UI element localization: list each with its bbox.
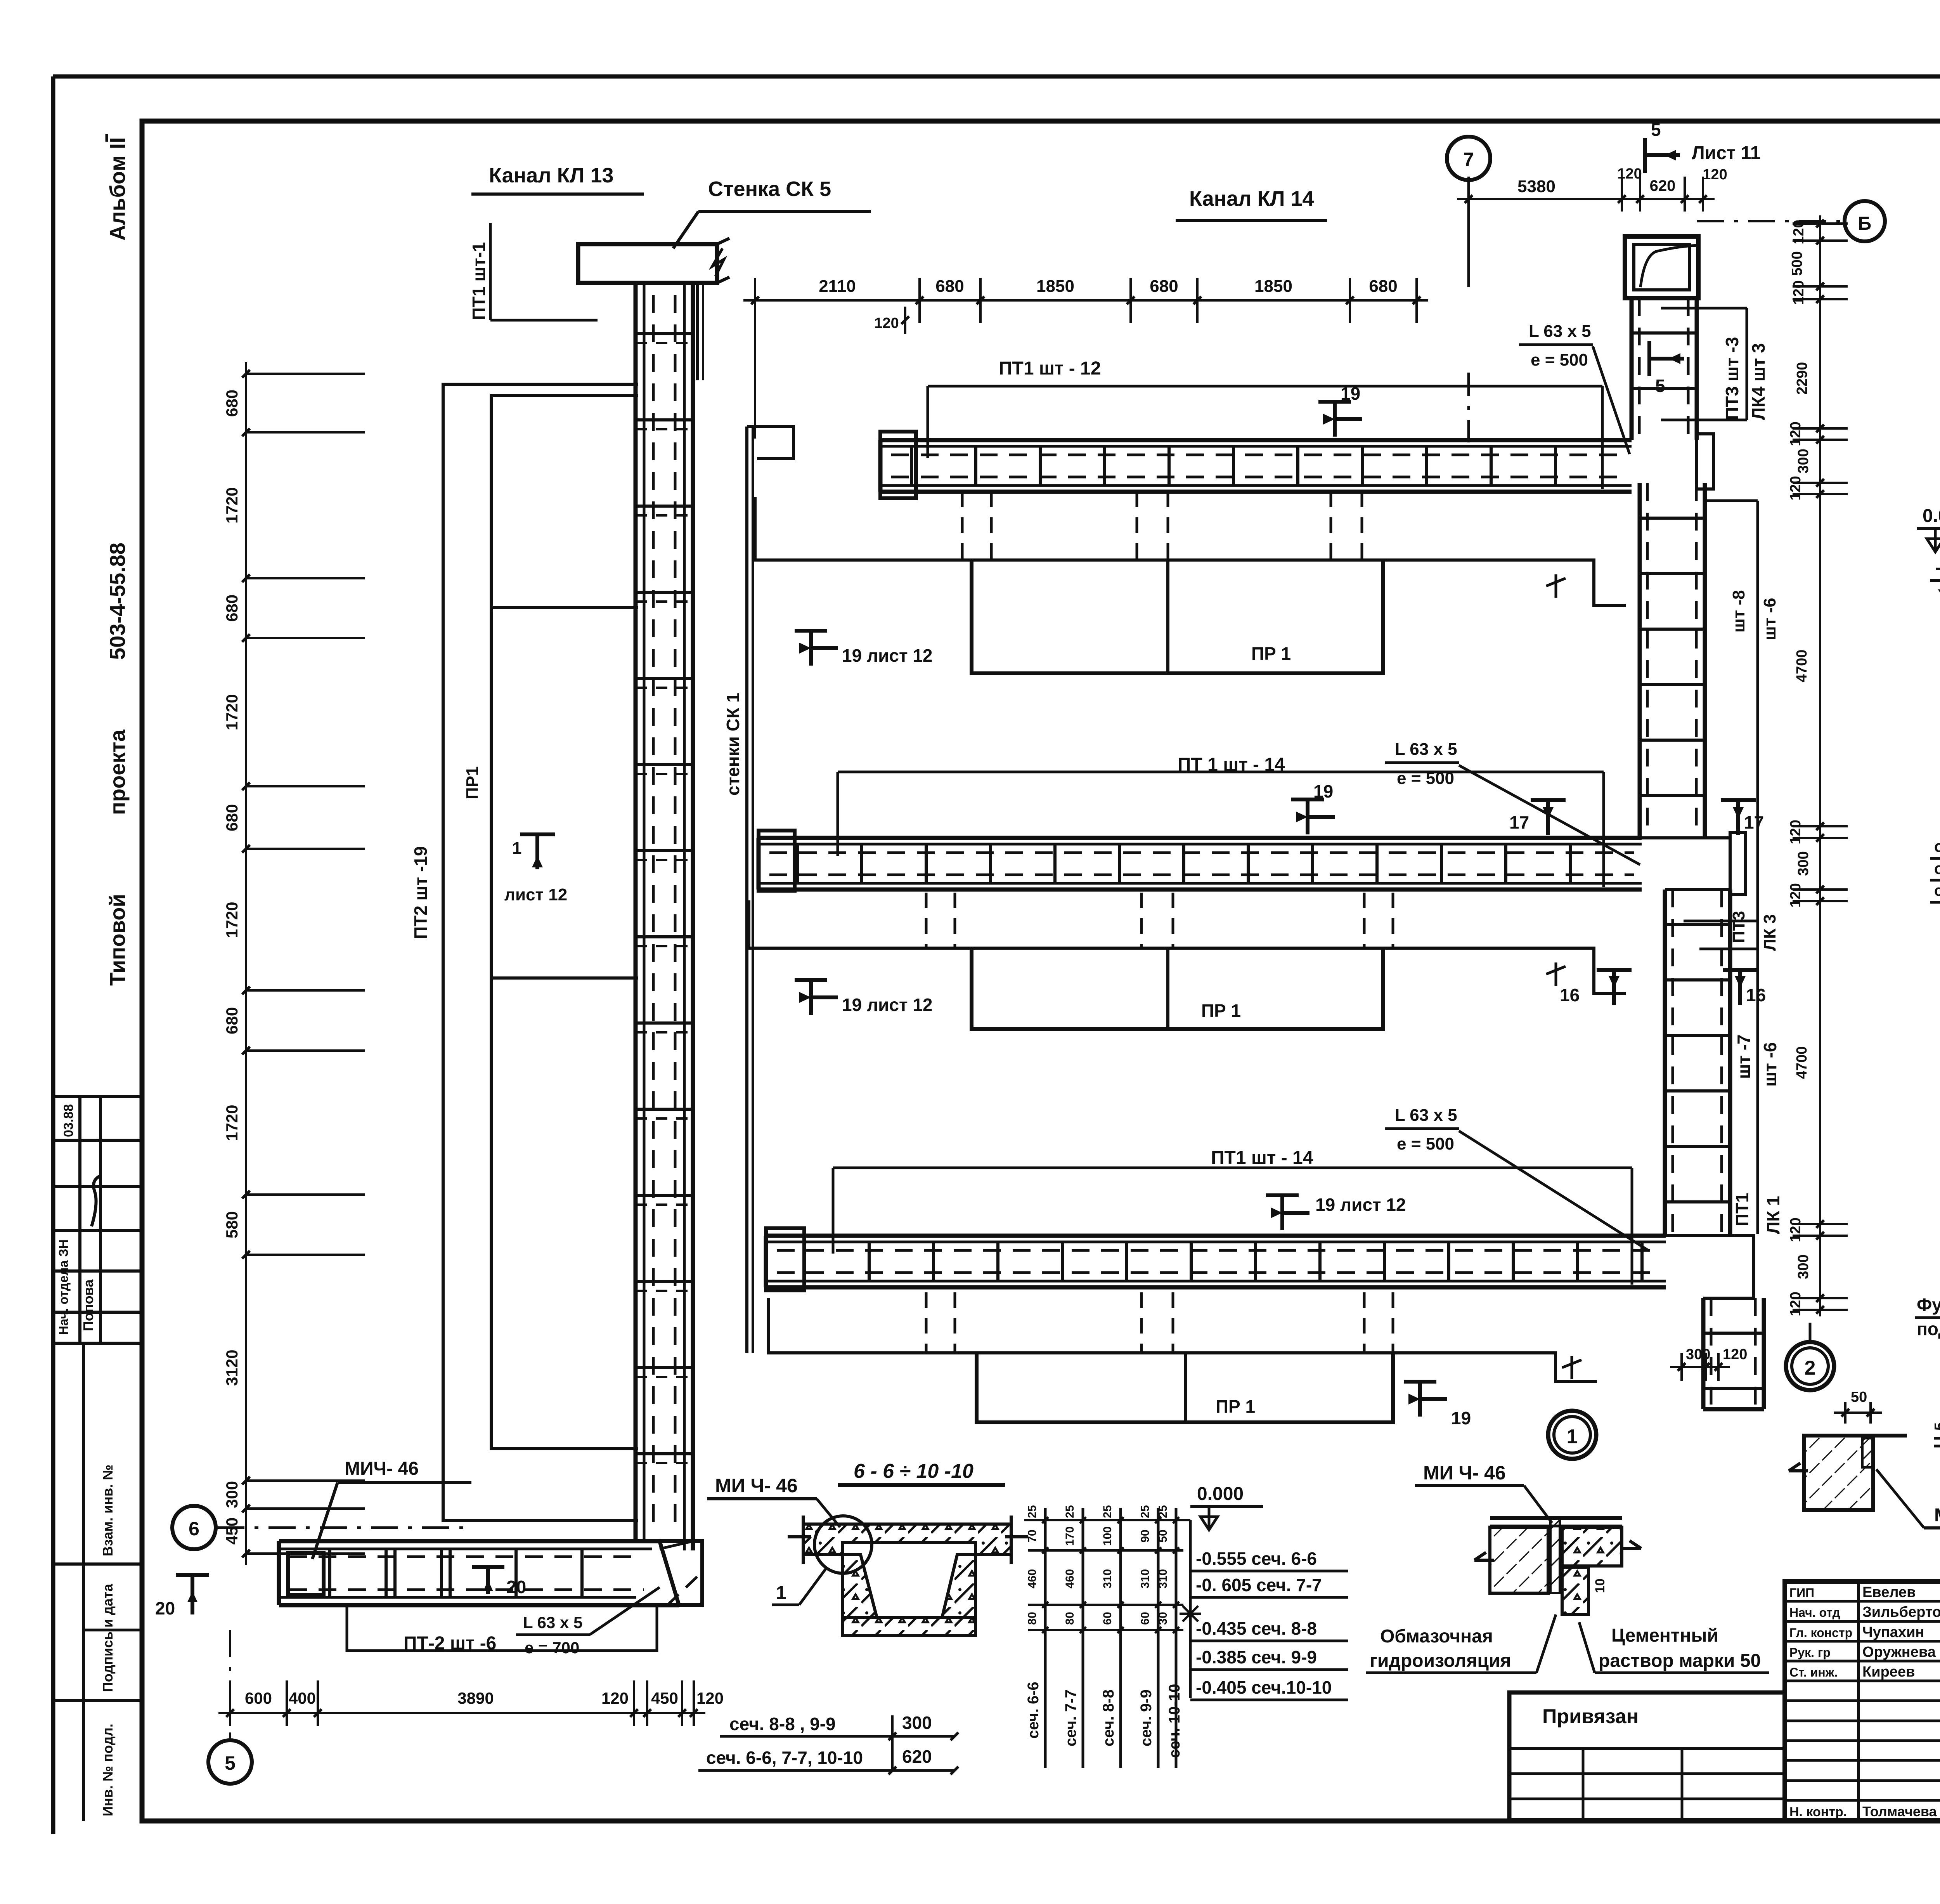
svg-text:50: 50 <box>1851 1389 1867 1405</box>
privyazan extension <box>1509 1692 1785 1820</box>
svg-text:1850: 1850 <box>1036 277 1074 296</box>
svg-text:25: 25 <box>1139 1505 1152 1518</box>
svg-text:120: 120 <box>1723 1346 1747 1363</box>
svg-text:Зильбертов: Зильбертов <box>1862 1604 1940 1620</box>
svg-text:60: 60 <box>1139 1612 1152 1625</box>
svg-text:19 лист 12: 19 лист 12 <box>842 995 933 1015</box>
svg-text:под колонну: под колонну <box>1917 1319 1940 1339</box>
svg-text:90: 90 <box>1139 1529 1152 1542</box>
svg-text:ПТ1 шт - 14: ПТ1 шт - 14 <box>1211 1148 1313 1168</box>
svg-text:-0.405 сеч.10-10: -0.405 сеч.10-10 <box>1196 1677 1332 1698</box>
svg-text:ПР1: ПР1 <box>463 766 482 799</box>
svg-text:Оружнева: Оружнева <box>1862 1644 1936 1660</box>
6-6 detail circle + 1 <box>814 1516 872 1573</box>
svg-text:Взам. инв. №: Взам. инв. № <box>100 1465 116 1556</box>
svg-text:460: 460 <box>1064 1569 1076 1588</box>
svg-text:сеч. 6-6: сеч. 6-6 <box>1025 1682 1042 1739</box>
svg-text:ПТ1: ПТ1 <box>1732 1193 1752 1226</box>
svg-text:500: 500 <box>1789 251 1805 276</box>
svg-text:6 - 6 ÷ 10 -10: 6 - 6 ÷ 10 -10 <box>854 1460 973 1483</box>
svg-text:Цементный: Цементный <box>1611 1625 1718 1646</box>
svg-text:5: 5 <box>1932 1422 1940 1431</box>
horizontal channel band PT1 sht-14 (ch2) <box>759 836 1642 840</box>
svg-text:сеч. 9-9: сеч. 9-9 <box>1138 1689 1155 1746</box>
svg-text:120: 120 <box>1788 1292 1804 1316</box>
top plate SK5 (KL13) <box>578 244 717 283</box>
svg-text:L 63 x 5: L 63 x 5 <box>523 1613 582 1632</box>
svg-text:Канал КЛ 14: Канал КЛ 14 <box>1189 187 1314 210</box>
svg-text:Толмачева: Толмачева <box>1862 1803 1937 1819</box>
label PT-2 sht-6 bracket <box>347 1605 657 1651</box>
top square box <box>1625 236 1698 298</box>
svg-text:сеч. 14-14 перем.: сеч. 14-14 перем. <box>1934 837 1940 855</box>
svg-text:30: 30 <box>1157 1612 1169 1625</box>
sidebar: podpis i data cell <box>53 1699 142 1702</box>
trench outline rect KL13 outer <box>443 384 638 1521</box>
svg-text:4700: 4700 <box>1794 1046 1810 1079</box>
svg-text:L 63 x 5: L 63 x 5 <box>1395 740 1457 759</box>
svg-text:19: 19 <box>1341 383 1360 404</box>
svg-text:стенки СК 1: стенки СК 1 <box>723 693 743 796</box>
svg-text:10: 10 <box>1593 1578 1607 1593</box>
mid strip <box>1550 1518 1560 1593</box>
svg-text:1: 1 <box>512 839 521 858</box>
junction connector ch1 <box>1697 434 1713 489</box>
svg-text:Привязан: Привязан <box>1542 1705 1639 1728</box>
top dim chain 5380/120/620/120 <box>1457 198 1715 200</box>
trench outline rect KL13 inner (PR1) <box>491 395 638 1449</box>
svg-text:ПР 1: ПР 1 <box>1251 643 1291 664</box>
signature table grid <box>1785 1600 1940 1603</box>
KL13 bottom dim chain <box>218 1712 705 1714</box>
axis circle 2 <box>1786 1342 1834 1390</box>
ch3 19 list 12 <box>1280 1195 1284 1230</box>
svg-text:-0. 605 сеч. 7-7: -0. 605 сеч. 7-7 <box>1196 1575 1322 1595</box>
svg-text:0.000: 0.000 <box>1197 1484 1244 1504</box>
ch3 left end cap <box>766 1228 804 1290</box>
svg-text:МИ Ч- 46: МИ Ч- 46 <box>715 1475 798 1496</box>
ch2 left end cap <box>759 831 795 891</box>
outer border <box>53 75 1940 79</box>
section mark 5 on ladder <box>1647 341 1651 376</box>
svg-text:Лист 11: Лист 11 <box>1692 143 1760 163</box>
svg-text:МН 556: МН 556 <box>1934 1505 1940 1526</box>
ch1 break mark <box>1546 574 1566 598</box>
svg-text:19: 19 <box>1451 1408 1471 1428</box>
vertical channel segment C <box>1663 890 1667 1236</box>
svg-text:1: 1 <box>776 1583 786 1603</box>
right block <box>1562 1527 1622 1566</box>
svg-text:300: 300 <box>902 1713 932 1733</box>
svg-text:Евелев: Евелев <box>1862 1584 1916 1601</box>
svg-text:Альбом II: Альбом II <box>105 137 130 241</box>
vertical channel segment D <box>1701 1298 1706 1409</box>
svg-text:5: 5 <box>1651 120 1661 140</box>
svg-text:03.88: 03.88 <box>61 1104 76 1137</box>
svg-text:сеч. 8-8 , 9-9: сеч. 8-8 , 9-9 <box>729 1714 836 1734</box>
svg-text:3120: 3120 <box>223 1350 241 1386</box>
svg-text:e = 500: e = 500 <box>1531 350 1588 369</box>
svg-text:ЛК 1: ЛК 1 <box>1763 1196 1783 1234</box>
svg-text:300: 300 <box>1686 1346 1710 1363</box>
svg-text:сеч. 8-8: сеч. 8-8 <box>1100 1689 1117 1746</box>
svg-text:680: 680 <box>223 1007 241 1034</box>
6-6 channel walls trapezoid <box>842 1555 877 1618</box>
svg-text:гидроизоляция: гидроизоляция <box>1370 1651 1511 1671</box>
SK5 wall stub below plate <box>696 283 699 380</box>
svg-text:19: 19 <box>1313 781 1333 801</box>
svg-text:4700: 4700 <box>1794 650 1810 683</box>
title block outline <box>1785 1581 1940 1820</box>
6-6 slab band hatched <box>803 1524 1011 1555</box>
svg-text:Нач. отд: Нач. отд <box>1789 1606 1840 1620</box>
svg-text:2: 2 <box>1805 1357 1816 1379</box>
left hatched block <box>1490 1527 1548 1593</box>
ch3 PR1 rect <box>977 1353 1393 1422</box>
svg-text:120: 120 <box>601 1689 629 1707</box>
svg-text:МИ Ч- 46: МИ Ч- 46 <box>1423 1462 1506 1484</box>
ch3 break mark <box>1562 1356 1581 1379</box>
svg-text:310: 310 <box>1101 1569 1114 1588</box>
dim 300/120 near ch3 end <box>1670 1366 1730 1368</box>
svg-text:310: 310 <box>1139 1569 1152 1588</box>
svg-text:сеч. 7-7: сеч. 7-7 <box>1062 1689 1079 1746</box>
svg-text:80: 80 <box>1026 1612 1039 1625</box>
svg-text:25: 25 <box>1064 1505 1076 1518</box>
svg-text:20: 20 <box>155 1598 175 1618</box>
svg-text:1720: 1720 <box>223 1105 241 1141</box>
svg-text:Канал КЛ 13: Канал КЛ 13 <box>489 164 614 187</box>
svg-text:120: 120 <box>1791 220 1807 244</box>
svg-text:5: 5 <box>1655 376 1665 396</box>
svg-text:Типовой: Типовой <box>105 894 130 986</box>
ch1 left end cap <box>880 432 916 498</box>
vertical channel segment A <box>1630 298 1634 440</box>
svg-text:680: 680 <box>1150 277 1178 296</box>
ch2 section marks 17 <box>1531 798 1566 802</box>
ch3 19 mark lower <box>1418 1382 1422 1417</box>
svg-text:680: 680 <box>223 390 241 417</box>
svg-text:2110: 2110 <box>819 277 856 296</box>
elevation list <box>1189 1520 1192 1698</box>
svg-text:-0.435 сеч. 8-8: -0.435 сеч. 8-8 <box>1196 1618 1317 1639</box>
svg-text:170: 170 <box>1064 1526 1076 1546</box>
svg-text:проекта: проекта <box>105 729 130 815</box>
KL13 channel rungs <box>636 332 693 335</box>
svg-text:Б: Б <box>1858 213 1872 234</box>
ch1 trench outline <box>755 497 1626 605</box>
svg-text:ПТ1 шт - 12: ПТ1 шт - 12 <box>999 358 1101 379</box>
svg-text:Рук. гр: Рук. гр <box>1789 1646 1831 1659</box>
KL14 top dim chain 2110..680 <box>743 299 1428 302</box>
svg-text:580: 580 <box>223 1211 241 1238</box>
svg-text:ЛК4 шт 3: ЛК4 шт 3 <box>1748 343 1769 420</box>
svg-text:60: 60 <box>1101 1612 1114 1625</box>
section mark 20 left <box>191 1575 194 1614</box>
right dim chain of KL14 vertical <box>1819 215 1821 1316</box>
svg-text:Фундамент: Фундамент <box>1917 1295 1940 1315</box>
svg-text:16: 16 <box>1746 985 1766 1005</box>
svg-text:2290: 2290 <box>1794 362 1810 395</box>
svg-text:450: 450 <box>651 1689 678 1707</box>
svg-text:шт -7: шт -7 <box>1734 1034 1754 1079</box>
svg-text:L 63 x 5: L 63 x 5 <box>1395 1106 1457 1125</box>
horizontal channel band PT1 sht-14 (ch3) <box>766 1234 1666 1238</box>
junction connector ch3 <box>1666 1236 1754 1298</box>
dim 50 above <box>1834 1412 1882 1414</box>
svg-text:310: 310 <box>1157 1569 1169 1588</box>
svg-text:ГИП: ГИП <box>1789 1586 1814 1600</box>
axis circle 7 + axis <box>1447 137 1490 180</box>
svg-text:Стенка СК 5: Стенка СК 5 <box>708 177 831 201</box>
section marks 16 <box>1597 968 1632 972</box>
svg-text:600: 600 <box>245 1689 272 1707</box>
6-6 dim grid <box>1044 1508 1047 1768</box>
ch2 trench outline <box>749 900 1626 994</box>
svg-text:Киреев: Киреев <box>1862 1664 1915 1680</box>
svg-text:680: 680 <box>1369 277 1397 296</box>
svg-text:Ст. инж.: Ст. инж. <box>1789 1665 1838 1679</box>
svg-text:5: 5 <box>225 1752 236 1774</box>
svg-text:Нач. отдела ЗН: Нач. отдела ЗН <box>56 1240 71 1335</box>
ch2 section mark 19 <box>1306 799 1309 834</box>
svg-text:1850: 1850 <box>1254 277 1292 296</box>
svg-text:сеч. 15-15 - 0,510: сеч. 15-15 - 0,510 <box>1934 859 1940 877</box>
svg-text:120: 120 <box>1791 280 1807 305</box>
svg-text:e = 500: e = 500 <box>1397 1134 1454 1153</box>
sidebar: vzam inv cell <box>53 1562 142 1566</box>
svg-text:120: 120 <box>1788 476 1804 500</box>
svg-text:120: 120 <box>1788 421 1804 446</box>
svg-text:ЛК 3: ЛК 3 <box>1760 914 1779 951</box>
svg-text:ПР 1: ПР 1 <box>1201 1001 1241 1021</box>
axis circle B + axis <box>1697 220 1843 222</box>
svg-text:сеч. 16-16, 17-17 1.125: сеч. 16-16, 17-17 1.125 <box>1934 882 1940 899</box>
ch1 PR1 rect <box>972 560 1383 673</box>
KL13 bottom foot channel <box>279 1539 660 1543</box>
ch1 19 list 12 <box>809 631 813 666</box>
svg-text:620: 620 <box>1650 177 1676 194</box>
svg-text:0.000: 0.000 <box>1923 506 1940 526</box>
svg-text:ПТ1 шт-1: ПТ1 шт-1 <box>469 242 489 320</box>
svg-text:e = 700: e = 700 <box>525 1639 579 1657</box>
svg-text:Инв. № подл.: Инв. № подл. <box>100 1724 116 1816</box>
svg-text:400: 400 <box>289 1689 316 1707</box>
svg-text:25: 25 <box>1101 1505 1114 1518</box>
svg-text:шт -6: шт -6 <box>1760 1042 1780 1087</box>
foot corner chamfer <box>660 1541 702 1605</box>
axis circle 5 bottom-left <box>229 1630 231 1740</box>
svg-text:25: 25 <box>1026 1505 1039 1518</box>
vertical channel segment B <box>1638 483 1642 838</box>
svg-text:450: 450 <box>223 1517 241 1545</box>
svg-text:Подпись и дата: Подпись и дата <box>100 1583 116 1692</box>
axis circle 1 <box>1548 1411 1596 1459</box>
svg-text:120: 120 <box>1788 883 1804 907</box>
svg-text:680: 680 <box>223 595 241 622</box>
svg-text:МИЧ- 46: МИЧ- 46 <box>345 1458 419 1479</box>
sidebar signature table <box>53 1095 142 1098</box>
svg-text:503-4-55.88: 503-4-55.88 <box>105 543 130 660</box>
ch2 PR1 rect <box>972 948 1383 1029</box>
svg-text:-0.555 сеч. 6-6: -0.555 сеч. 6-6 <box>1196 1549 1317 1569</box>
svg-text:300: 300 <box>1795 1254 1812 1279</box>
svg-text:ПТ2 шт -19: ПТ2 шт -19 <box>411 846 431 939</box>
svg-text:17: 17 <box>1744 812 1764 832</box>
svg-text:300: 300 <box>223 1481 241 1508</box>
svg-text:1720: 1720 <box>223 902 241 938</box>
svg-text:1: 1 <box>1567 1425 1578 1448</box>
svg-text:120: 120 <box>696 1689 724 1707</box>
ch1 section mark 19 <box>1333 402 1337 437</box>
svg-text:Чупахин: Чупахин <box>1862 1624 1924 1640</box>
ch2 break mark <box>1546 962 1566 986</box>
svg-text:460: 460 <box>1026 1569 1039 1588</box>
svg-text:-0.385 сеч. 9-9: -0.385 сеч. 9-9 <box>1196 1647 1317 1667</box>
svg-text:120: 120 <box>1788 1217 1804 1242</box>
svg-text:- 0.5 2 5: - 0.5 2 5 <box>1935 557 1940 578</box>
svg-text:120: 120 <box>1788 820 1804 844</box>
svg-text:17: 17 <box>1509 812 1529 832</box>
ch2 19 list 12 <box>809 980 813 1015</box>
stem <box>1562 1567 1588 1614</box>
svg-text:Попова: Попова <box>80 1279 96 1331</box>
svg-text:19 лист 12: 19 лист 12 <box>842 645 933 666</box>
svg-text:5380: 5380 <box>1517 177 1555 196</box>
svg-text:шт -6: шт -6 <box>1760 598 1779 640</box>
svg-text:1720: 1720 <box>223 487 241 524</box>
svg-text:25: 25 <box>1157 1505 1169 1518</box>
svg-text:7: 7 <box>1463 149 1474 170</box>
svg-text:680: 680 <box>223 804 241 831</box>
svg-text:16: 16 <box>1560 985 1580 1005</box>
svg-text:6: 6 <box>189 1518 199 1540</box>
svg-text:ПР 1: ПР 1 <box>1216 1396 1255 1417</box>
svg-text:сеч. 10-10: сеч. 10-10 <box>1166 1684 1183 1758</box>
section mark 20 in foot <box>486 1567 490 1594</box>
svg-text:680: 680 <box>935 277 964 296</box>
svg-text:L 63 x 5: L 63 x 5 <box>1529 322 1591 341</box>
svg-text:1720: 1720 <box>223 694 241 730</box>
svg-text:300: 300 <box>1795 851 1812 876</box>
svg-text:100: 100 <box>1101 1526 1114 1546</box>
junction connector ch2 <box>1642 838 1730 890</box>
section mark 1 / list 12 (KL13) <box>535 834 539 869</box>
svg-text:Гл. констр: Гл. констр <box>1789 1626 1852 1640</box>
svg-text:20: 20 <box>506 1577 526 1597</box>
svg-text:ПТ3: ПТ3 <box>1729 911 1748 943</box>
svg-text:сеч. 6-6, 7-7, 10-10: сеч. 6-6, 7-7, 10-10 <box>706 1748 863 1768</box>
KL13 vertical channel walls <box>634 283 638 1541</box>
section mark 5 / List 11 top <box>1643 138 1647 173</box>
svg-text:ПТ-2 шт -6: ПТ-2 шт -6 <box>404 1633 496 1654</box>
svg-text:70: 70 <box>1026 1529 1039 1542</box>
svg-text:300: 300 <box>1795 449 1812 473</box>
svg-text:80: 80 <box>1064 1612 1076 1625</box>
svg-text:шт -8: шт -8 <box>1729 590 1748 633</box>
detail slab top lines <box>1490 1516 1622 1520</box>
svg-text:раствор марки 50: раствор марки 50 <box>1599 1651 1761 1671</box>
svg-text:3890: 3890 <box>457 1689 494 1707</box>
svg-text:Н. контр.: Н. контр. <box>1789 1805 1847 1819</box>
svg-text:19 лист 12: 19 лист 12 <box>1315 1195 1406 1215</box>
axis line + circle 6 <box>217 1526 469 1529</box>
svg-text:ПТ3 шт -3: ПТ3 шт -3 <box>1722 337 1742 420</box>
svg-text:Обмазочная: Обмазочная <box>1380 1626 1493 1647</box>
svg-text:620: 620 <box>902 1746 932 1767</box>
svg-text:50: 50 <box>1157 1529 1169 1542</box>
svg-text:120: 120 <box>874 315 899 331</box>
svg-text:e = 500: e = 500 <box>1397 769 1454 788</box>
svg-text:120: 120 <box>1617 166 1642 182</box>
foot channel end box <box>288 1553 324 1595</box>
wall line SK1 left building wall <box>745 427 748 1353</box>
svg-text:120: 120 <box>1703 166 1727 183</box>
svg-text:лист 12: лист 12 <box>504 885 567 904</box>
horizontal channel band PT1 sht-12 (ch1) <box>880 438 1632 442</box>
dim chain KL13 left <box>245 362 247 1565</box>
ch3 trench outline <box>768 1298 1597 1382</box>
